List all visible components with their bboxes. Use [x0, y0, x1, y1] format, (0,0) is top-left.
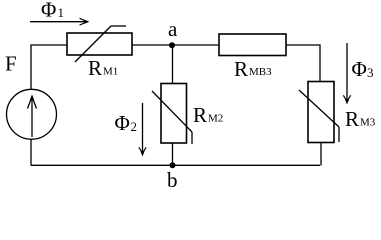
label RMB3: [234, 57, 272, 81]
svg-text:R: R: [345, 107, 359, 131]
svg-text:Φ: Φ: [41, 0, 56, 22]
node b: [167, 162, 178, 192]
label RM3: [345, 107, 376, 131]
bottom wire rail: [31, 164, 320, 166]
label RM1: [88, 56, 118, 80]
svg-text:M2: M2: [208, 113, 223, 125]
svg-text:R: R: [234, 57, 248, 81]
svg-text:3: 3: [367, 65, 374, 80]
node a: [168, 17, 178, 48]
source arrow (up): [28, 95, 37, 138]
wire source bottom to bottom rail: [30, 139, 32, 165]
flux arrow Φ2 (down): [139, 103, 146, 157]
label F: [5, 52, 17, 76]
label Φ2: [115, 111, 138, 135]
svg-text:2: 2: [131, 119, 138, 134]
wire RM1 to RMB3 (through node a): [132, 44, 219, 46]
label RM2: [193, 103, 223, 127]
svg-text:MB3: MB3: [249, 66, 272, 78]
flux arrow Φ3 (down): [343, 43, 350, 105]
flux arrow Φ1: [30, 18, 89, 25]
wire RM2 to bottom rail: [172, 143, 174, 166]
wire top-left (source to RM1): [31, 45, 67, 90]
resistor RM3 (nonlinear): [299, 82, 339, 143]
resistor RMB3 (linear): [219, 34, 286, 56]
svg-text:R: R: [88, 56, 102, 80]
resistor RM2 (nonlinear): [152, 84, 192, 145]
mmf source F (circle): [7, 89, 57, 139]
resistor RM1 (nonlinear): [67, 26, 132, 62]
label Φ3: [352, 57, 374, 81]
svg-text:1: 1: [58, 5, 65, 20]
svg-text:a: a: [168, 17, 178, 41]
svg-text:M3: M3: [360, 117, 376, 129]
svg-text:b: b: [167, 168, 178, 191]
svg-text:Φ: Φ: [352, 57, 367, 81]
svg-text:M1: M1: [103, 66, 118, 78]
wire RM3 to bottom rail: [320, 143, 322, 166]
svg-text:R: R: [193, 103, 207, 127]
wire RMB3 to RM3 (top right corner): [286, 45, 320, 82]
svg-text:Φ: Φ: [115, 111, 130, 135]
wire node a to RM2: [172, 45, 174, 84]
label Φ1: [41, 0, 64, 22]
svg-text:F: F: [5, 52, 17, 76]
